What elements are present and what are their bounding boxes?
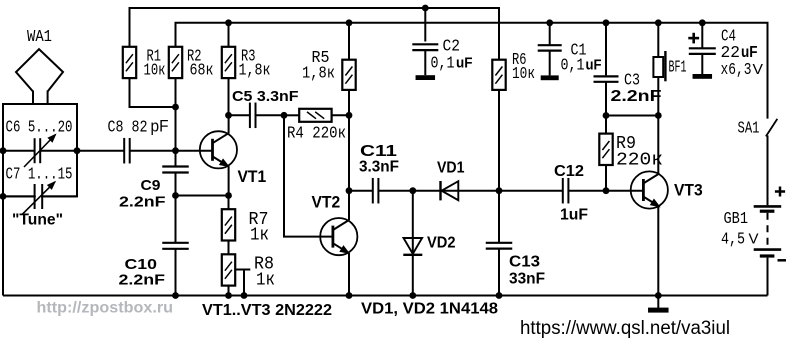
svg-text:10к: 10к [512, 65, 535, 84]
svg-text:x6,3: x6,3 [721, 61, 752, 80]
svg-text:C6 5...20: C6 5...20 [6, 119, 73, 138]
svg-text:VT2: VT2 [312, 192, 341, 211]
svg-text:BF1: BF1 [669, 59, 687, 78]
svg-text:VD2: VD2 [427, 235, 456, 252]
svg-text:C9: C9 [141, 177, 161, 194]
svg-text:"Tune": "Tune" [12, 212, 63, 229]
svg-text:C12: C12 [554, 163, 584, 180]
svg-text:C10: C10 [125, 256, 158, 273]
svg-text:VT1..VT3 2N2222: VT1..VT3 2N2222 [202, 302, 332, 319]
svg-text:V: V [753, 61, 764, 78]
svg-text:V: V [749, 231, 759, 248]
svg-text:1,8к: 1,8к [239, 62, 271, 81]
svg-text:GB1: GB1 [724, 210, 749, 229]
svg-text:3.3nF: 3.3nF [359, 159, 399, 176]
svg-text:VD1, VD2 1N4148: VD1, VD2 1N4148 [361, 301, 498, 318]
svg-text:WA1: WA1 [27, 28, 52, 47]
svg-text:VT1: VT1 [238, 167, 267, 186]
svg-text:1,8к: 1,8к [302, 65, 335, 84]
svg-text:10к: 10к [144, 62, 166, 81]
svg-text:pF: pF [151, 117, 169, 136]
svg-text:0,1: 0,1 [431, 55, 455, 74]
svg-text:R4 220к: R4 220к [287, 125, 346, 144]
svg-text:1к: 1к [250, 226, 269, 246]
svg-text:0,1: 0,1 [561, 57, 585, 76]
svg-text:4,5: 4,5 [721, 231, 745, 250]
svg-text:uF: uF [586, 57, 602, 74]
svg-text:220к: 220к [616, 151, 663, 171]
svg-text:2.2nF: 2.2nF [119, 272, 166, 289]
svg-text:uF: uF [456, 55, 473, 72]
svg-text:1uF: 1uF [560, 207, 588, 224]
svg-text:VT3: VT3 [674, 181, 703, 200]
svg-text:C7 1...15: C7 1...15 [6, 166, 73, 185]
svg-text:C5 3.3nF: C5 3.3nF [232, 88, 299, 105]
svg-text:2.2nF: 2.2nF [119, 194, 166, 211]
svg-text:http://zpostbox.ru: http://zpostbox.ru [37, 300, 174, 317]
svg-text:2.2nF: 2.2nF [611, 88, 662, 105]
svg-text:SA1: SA1 [738, 120, 760, 139]
svg-text:1к: 1к [256, 271, 275, 291]
svg-text:C11: C11 [360, 143, 397, 160]
svg-text:68к: 68к [190, 62, 214, 81]
svg-text:https://www.qsl.net/va3iul: https://www.qsl.net/va3iul [520, 318, 730, 339]
svg-text:C13: C13 [509, 254, 540, 271]
svg-text:uF: uF [741, 44, 758, 61]
svg-text:33nF: 33nF [509, 271, 545, 288]
svg-text:VD1: VD1 [437, 160, 465, 177]
svg-text:C8 82: C8 82 [108, 119, 148, 138]
